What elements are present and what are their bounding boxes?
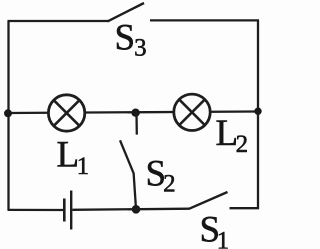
wire S2 upper stub	[135, 113, 138, 135]
node bottom junction	[132, 205, 141, 214]
wire middle horizontal	[9, 112, 259, 114]
wire bottom middle segment	[73, 209, 190, 210]
lamp L2	[174, 94, 210, 130]
node left junction	[4, 109, 12, 117]
switch S3 blade	[108, 3, 145, 21]
wire top left segment	[8, 20, 109, 22]
switch S1 blade	[189, 192, 228, 209]
lamp L1	[48, 95, 84, 131]
battery cell	[64, 191, 71, 230]
wire top right segment	[150, 19, 259, 21]
wire bottom right segment	[230, 207, 260, 209]
wire bottom left segment	[8, 209, 64, 211]
node right junction	[254, 108, 261, 115]
node middle junction	[131, 109, 139, 117]
wire S2 lower segment	[134, 173, 136, 209]
wire left vertical	[7, 21, 9, 210]
wire right vertical	[257, 20, 259, 209]
switch S2 blade	[120, 140, 134, 173]
